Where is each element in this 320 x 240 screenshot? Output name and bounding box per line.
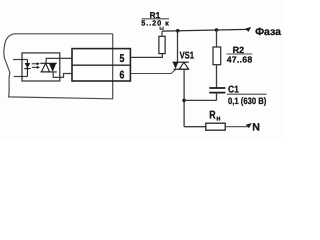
light arrows xyxy=(32,62,40,69)
node dot R2 xyxy=(215,28,219,32)
opto-triac top terminal wire to pin 5 xyxy=(46,58,72,63)
resistor R1 xyxy=(159,36,165,53)
svg-text:н: н xyxy=(216,116,220,123)
wire LED anode xyxy=(13,59,27,61)
VS1 anode riser xyxy=(177,31,179,62)
svg-text:5..20 к: 5..20 к xyxy=(141,19,169,28)
node dot C1 branch xyxy=(182,99,186,103)
node dot VS1 xyxy=(176,29,180,33)
wire pin6 to VS1 gate xyxy=(130,69,176,73)
capacitor C1 xyxy=(209,88,225,93)
opto-triac symbol xyxy=(40,63,57,72)
C1 fraction bar xyxy=(227,93,267,95)
wire Rn to N xyxy=(225,126,247,128)
wire VS1 to Rn xyxy=(184,126,206,128)
wire pin5 to R1 xyxy=(130,54,162,58)
R2 bottom lead xyxy=(216,65,218,88)
LED emitting diode xyxy=(24,60,30,77)
optocoupler LED box xyxy=(22,53,60,81)
svg-text:Фаза: Фаза xyxy=(255,26,281,38)
R2 fraction bar xyxy=(227,53,253,55)
pin box (IC package) xyxy=(72,49,130,81)
R2 top lead xyxy=(216,30,218,47)
svg-text:6: 6 xyxy=(120,70,125,82)
R1 fraction bar xyxy=(142,18,170,20)
top wire (phase line) xyxy=(162,29,248,31)
opto-triac bottom terminal wire to pin 6 xyxy=(53,72,72,78)
terminal arrow Faza xyxy=(245,27,251,32)
triac VS1 xyxy=(173,62,189,69)
svg-text:47..68: 47..68 xyxy=(227,54,253,64)
svg-text:R: R xyxy=(209,110,215,122)
R1 top lead xyxy=(161,31,163,36)
load resistor Rn body xyxy=(206,123,225,130)
resistor R2 xyxy=(213,47,221,65)
svg-text:5: 5 xyxy=(120,53,125,65)
VS1 cathode lead down xyxy=(183,69,185,127)
svg-text:0,1 (630 В): 0,1 (630 В) xyxy=(228,96,266,106)
svg-text:N: N xyxy=(252,122,260,134)
terminal arrow N xyxy=(246,123,252,128)
device outline blob xyxy=(4,34,113,99)
wire C1 to VS1 cathode xyxy=(184,99,216,101)
C1 bottom lead xyxy=(216,93,218,101)
svg-text:VS1: VS1 xyxy=(180,50,195,61)
wire LED cathode xyxy=(14,76,28,78)
ink mark near R1 junction xyxy=(160,27,163,30)
